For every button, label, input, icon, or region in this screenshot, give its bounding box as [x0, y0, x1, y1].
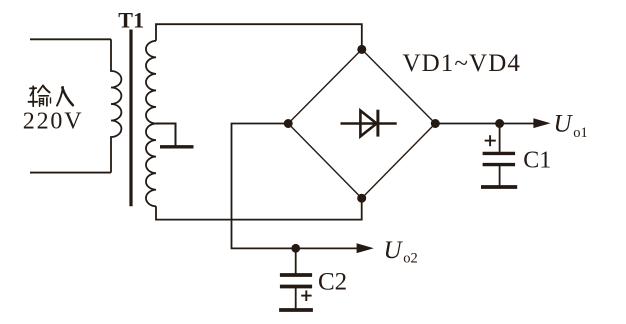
svg-text:U: U: [554, 110, 574, 137]
svg-text:o1: o1: [573, 125, 588, 141]
transformer core bar: [129, 30, 132, 207]
bridge rectifier VD1~VD4 diamond: [288, 49, 435, 198]
node: bridge top: [357, 45, 366, 54]
wire: bridge left node down to Uo2 rail: [232, 124, 359, 249]
capacitor C2: [280, 248, 312, 308]
diode symbol inside bridge: [341, 110, 397, 137]
svg-text:U: U: [384, 237, 404, 264]
node: bridge bottom: [357, 194, 366, 203]
arrow head Uo1: [533, 118, 550, 128]
ground bar below C2: [279, 308, 313, 312]
ground (center tap): [160, 145, 194, 148]
capacitor C1: [483, 124, 515, 187]
wire: secondary center tap: [156, 124, 176, 146]
wire: secondary top lead to bridge top: [156, 24, 362, 49]
node: C1 junction: [495, 119, 504, 128]
svg-text:o2: o2: [403, 250, 418, 266]
wire: secondary bottom lead to bridge bottom: [156, 198, 362, 219]
label: 入 (input char 2, drawn as paths): [57, 87, 73, 106]
node: bridge left: [284, 119, 293, 128]
transformer primary winding P1: [111, 39, 121, 172]
ground bar below C1: [481, 185, 517, 189]
polarity + of C1: [485, 135, 496, 146]
node: bridge right: [431, 119, 440, 128]
svg-text:C1: C1: [523, 147, 551, 173]
label: 输 (input char 1, drawn as paths): [29, 86, 51, 107]
node: C2 junction: [291, 244, 300, 253]
wire: input bottom lead: [30, 172, 111, 174]
polarity + of C2: [301, 290, 311, 301]
svg-text:220V: 220V: [23, 108, 84, 134]
svg-text:VD1~VD4: VD1~VD4: [403, 50, 521, 77]
svg-text:T1: T1: [118, 7, 144, 32]
wire: input top lead: [30, 38, 111, 40]
svg-text:C2: C2: [318, 268, 347, 295]
transformer secondary winding S1 (10 bumps): [146, 41, 156, 207]
arrow head Uo2: [357, 243, 374, 253]
wire: bridge right node to output Uo1: [435, 123, 536, 125]
